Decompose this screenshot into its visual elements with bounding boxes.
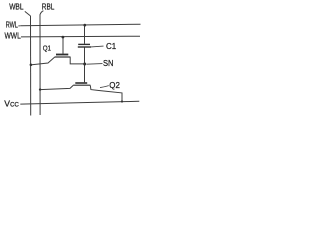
- node SN storage node: [83, 63, 86, 66]
- svg-text:RWL: RWL: [6, 21, 19, 30]
- svg-text:Q1: Q1: [43, 44, 51, 53]
- wire RWL horizontal line: [21, 24, 141, 26]
- wire Q1 source to WBL: [31, 57, 55, 65]
- wire C1 label dash: [91, 45, 104, 48]
- svg-text:RBL: RBL: [42, 2, 55, 11]
- wire C1 top lead to RWL: [84, 25, 86, 44]
- node Q1 source on WBL: [30, 64, 33, 67]
- wire RWL label dash: [18, 25, 20, 27]
- transistor Q2: [73, 83, 90, 85]
- wire SN label dash: [87, 63, 103, 66]
- wire Q2 source to RBL branch: [40, 85, 73, 89]
- node Q2 branch on RBL: [39, 88, 41, 90]
- wire Q1 drain to SN node: [70, 57, 84, 64]
- wire WWL horizontal line: [21, 35, 140, 38]
- wire RBL vertical bitline: [39, 14, 41, 115]
- node C1 top on RWL: [83, 24, 86, 27]
- svg-text:WBL: WBL: [9, 3, 24, 12]
- capacitor C1: [78, 44, 91, 47]
- svg-text:VCC: VCC: [4, 98, 19, 108]
- svg-text:WWL: WWL: [5, 32, 22, 41]
- wire Vcc rail: [20, 101, 139, 104]
- node Q2 drain on Vcc: [121, 100, 123, 102]
- svg-text:SN: SN: [103, 59, 114, 68]
- wire WBL label tick: [25, 11, 31, 16]
- wire Q2 drain down to Vcc: [90, 85, 122, 101]
- wire WBL vertical bitline: [30, 16, 32, 116]
- wire SN vertical (C1 bottom lead to Q2 gate): [84, 47, 86, 82]
- wire Q2 label dash: [100, 86, 109, 88]
- transistor Q1: [55, 55, 71, 58]
- node Q1 gate on WWL: [62, 36, 65, 39]
- wire RBL label tick: [40, 11, 43, 15]
- svg-text:C1: C1: [106, 42, 117, 51]
- wire Q1 gate lead from WWL: [62, 37, 64, 54]
- svg-text:Q2: Q2: [109, 81, 120, 90]
